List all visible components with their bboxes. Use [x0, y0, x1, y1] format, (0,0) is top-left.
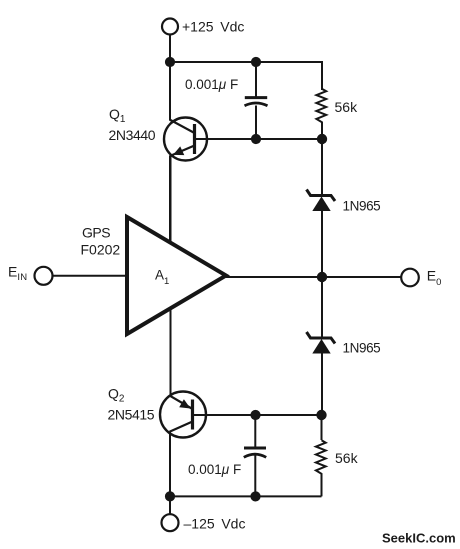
node junction top-cap	[251, 57, 261, 67]
svg-text:Q2: Q2	[108, 386, 125, 405]
zener diode D2 1N965	[307, 332, 336, 354]
node junction R1 bottom	[317, 134, 327, 144]
wire cap C1 bottom lead	[255, 106, 257, 140]
wire top rail	[170, 62, 322, 90]
wire D1 to output node	[321, 210, 323, 277]
node junction Q2 base / cap	[250, 410, 260, 420]
wire Q2 base rail	[193, 414, 323, 416]
svg-text:2N3440: 2N3440	[109, 127, 156, 143]
svg-text:1N965: 1N965	[343, 341, 381, 356]
wire bottom rail	[170, 495, 322, 497]
resistor R2 56k	[316, 440, 326, 496]
wire output node to zener D2	[321, 277, 323, 339]
terminal EIN	[35, 267, 53, 285]
node output junction	[317, 272, 327, 282]
wire D2 to Q2 base rail	[321, 353, 323, 416]
svg-text:–125 Vdc: –125 Vdc	[184, 516, 246, 532]
wire column to resistor R2	[321, 415, 323, 440]
wire cap C2 bottom lead	[254, 456, 256, 497]
op-amp V- pin wire	[170, 308, 172, 396]
terminal E0	[401, 269, 419, 287]
wire cap C2 top lead	[254, 415, 256, 447]
svg-text:+125 Vdc: +125 Vdc	[182, 19, 244, 35]
transistor Q1	[164, 118, 207, 161]
node junction Q2 base / column	[316, 410, 326, 420]
capacitor C1	[245, 98, 268, 106]
op-amp V+ pin wire	[170, 155, 172, 244]
node junction top-left	[165, 57, 175, 67]
terminal -125 Vdc	[162, 514, 179, 531]
svg-text:SeekIC.com: SeekIC.com	[382, 531, 456, 546]
svg-text:EIN: EIN	[8, 264, 27, 284]
wire output	[226, 276, 402, 278]
wire Q1 emitter to op-amp	[169, 156, 171, 246]
svg-text:E0: E0	[427, 268, 442, 289]
svg-text:GPS: GPS	[82, 225, 110, 241]
wire input	[53, 275, 128, 277]
wire Q2 collector to rail	[169, 432, 171, 497]
wire terminal to top rail	[169, 35, 171, 62]
resistor R1 56k	[316, 89, 326, 139]
svg-text:56k: 56k	[335, 99, 359, 115]
zener diode D1 1N965	[307, 190, 336, 212]
svg-text:F0202: F0202	[81, 242, 121, 258]
svg-text:1N965: 1N965	[343, 199, 381, 214]
wire rail to -125 terminal	[169, 496, 171, 514]
svg-text:0.001μ F: 0.001μ F	[185, 77, 238, 92]
capacitor C2	[244, 448, 266, 457]
node bottom-left junction	[165, 491, 175, 501]
svg-text:56k: 56k	[335, 450, 359, 466]
node cap C2 rail junction	[250, 491, 260, 501]
transistor Q2	[160, 392, 206, 438]
wire Q1 collector	[169, 62, 171, 120]
svg-text:2N5415: 2N5415	[108, 407, 155, 423]
node cap C1 bottom junction	[251, 134, 261, 144]
wire junction to zener D1	[321, 139, 323, 196]
wire Q1 base to right column	[195, 138, 323, 140]
wire cap C1 top lead	[255, 62, 257, 97]
terminal +125 Vdc	[162, 19, 178, 35]
svg-text:0.001μ F: 0.001μ F	[188, 462, 241, 477]
op-amp A1	[127, 217, 226, 334]
svg-text:Q1: Q1	[109, 106, 126, 125]
